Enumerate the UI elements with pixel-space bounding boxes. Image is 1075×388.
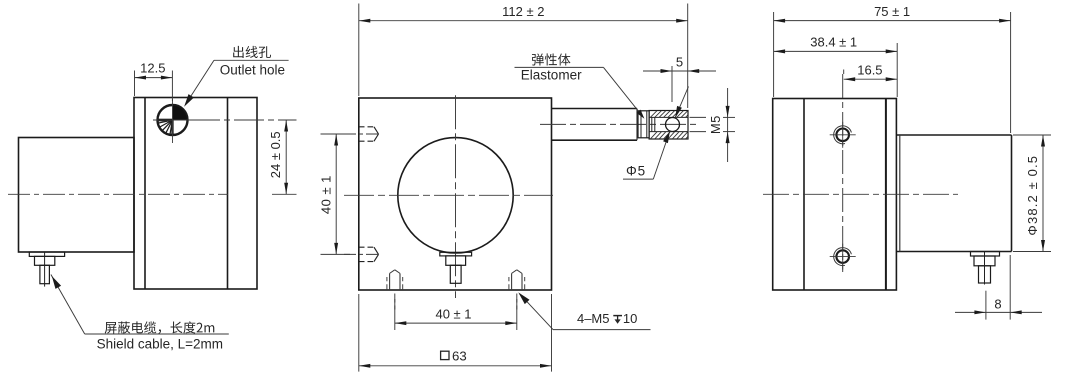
svg-text:63: 63 — [452, 348, 467, 363]
front view cable gland tier1 — [440, 252, 472, 256]
right view: plate inner edge line — [803, 99, 805, 291]
outlet hole leader line — [186, 60, 289, 104]
Φ5 text — [626, 163, 646, 178]
front view: drum circle — [398, 138, 513, 253]
svg-text:24 ± 0.5: 24 ± 0.5 — [268, 131, 283, 178]
right view cable gland tier1 — [971, 252, 1000, 257]
dimension 40±1(h) text — [435, 307, 471, 322]
right view: cylinder outline — [896, 135, 1011, 252]
outlet hole circle — [158, 105, 188, 135]
right view plate hole centerline (vertical) — [842, 74, 844, 272]
right view: mounting plate outline — [773, 99, 897, 291]
dimension M5 line — [726, 88, 730, 162]
left view cable gland tier1 — [29, 252, 64, 256]
dimension 12.5 extension lines — [135, 71, 173, 102]
front view cable gland tier2 — [446, 256, 466, 265]
shield cable leader arrowhead — [52, 276, 61, 289]
svg-text:10: 10 — [623, 311, 637, 326]
svg-text:Elastomer: Elastomer — [521, 68, 582, 83]
dimension 75±1 text — [874, 4, 910, 19]
svg-text:M5: M5 — [708, 115, 723, 134]
svg-text:4–M5: 4–M5 — [577, 311, 610, 326]
dimension □63 text — [441, 348, 467, 363]
dimension Φ38.2±0.5 line — [1041, 135, 1045, 252]
svg-text:112 ± 2: 112 ± 2 — [502, 4, 544, 19]
side tapped hole M5 top (left edge) — [344, 127, 381, 141]
dimension 24±0.5 line — [284, 120, 288, 194]
shield cable leader line — [51, 275, 229, 335]
M5 stud (threaded end) — [649, 111, 688, 140]
svg-text:8: 8 — [994, 296, 1001, 311]
dimension □63 line — [359, 364, 552, 368]
left view cable wire — [44, 252, 46, 287]
dimension □63 extension lines — [359, 294, 552, 372]
dimension 5 extension line — [671, 66, 673, 102]
label 出线孔 (CJK path) — [233, 46, 271, 58]
outlet hole leader arrowhead — [184, 94, 194, 107]
front view cable gland tube — [450, 265, 461, 283]
left view: rear face edge line — [227, 98, 229, 290]
svg-text:38.4 ± 1: 38.4 ± 1 — [810, 34, 857, 49]
label 4-M5 depth10 text — [577, 311, 637, 326]
dimension 38.4±1 text — [810, 34, 857, 49]
dimension M5 extension lines — [690, 117, 736, 131]
label Elastomer text — [521, 68, 582, 83]
svg-text:40 ± 1: 40 ± 1 — [319, 175, 334, 214]
dimension 112±2 line — [359, 19, 688, 23]
left view: sensor body (side outline) — [134, 98, 257, 290]
M5 stud thread hatching — [651, 111, 693, 139]
dimension Φ38.2±0.5 text — [1025, 155, 1040, 236]
dimension 24±0.5 text — [268, 131, 283, 178]
dimension 8 text — [994, 296, 1001, 311]
right view: plate right face line — [885, 99, 887, 291]
plate mounting hole top (M5 front view) — [830, 122, 856, 148]
svg-text:5: 5 — [676, 55, 683, 70]
front view vertical centerline — [455, 95, 457, 298]
dimension 75±1 extension lines — [774, 12, 1011, 133]
plate mounting hole bottom (M5 front view) — [830, 244, 856, 270]
right view horizontal centerline — [763, 193, 958, 195]
dimension 40±1(h) extension lines — [395, 299, 517, 330]
dimension 40±1(v) extension lines — [321, 134, 351, 254]
bottom tapped hole M5 right — [509, 270, 525, 310]
Φ5 diameter leader lines — [623, 87, 689, 180]
dimension 8 extension lines — [986, 255, 1010, 320]
left view: drum cylinder outline — [19, 138, 135, 253]
svg-text:Φ38.2 ± 0.5: Φ38.2 ± 0.5 — [1025, 155, 1040, 236]
svg-text:40 ± 1: 40 ± 1 — [435, 307, 471, 322]
left view cable gland tube — [40, 265, 50, 283]
outlet hole SW quadrant hatch fan — [158, 120, 172, 134]
outlet hole horizontal centerline — [153, 119, 191, 121]
dimension 24±0.5 extension lines — [190, 120, 297, 194]
dimension 12.5 text — [140, 60, 165, 75]
svg-text:Φ5: Φ5 — [626, 163, 646, 178]
svg-text:16.5: 16.5 — [857, 63, 882, 78]
elastomer leader arrowhead — [637, 110, 645, 119]
dimension 40±1(v) line — [334, 134, 338, 254]
label 弹性体 (CJK path) — [532, 53, 570, 65]
wire rope tube (rod) outline — [552, 109, 638, 141]
label Outlet hole text — [220, 62, 285, 77]
svg-text:12.5: 12.5 — [140, 60, 165, 75]
left view cable gland tier2 — [35, 256, 55, 265]
dimension 112±2 extension lines — [359, 4, 688, 109]
Φ5 leader arrowheads — [663, 106, 682, 143]
right view cable gland tube — [979, 266, 991, 283]
dimension 5 text — [676, 55, 683, 70]
label 屏蔽电缆，长度2m (CJK path) — [105, 321, 215, 333]
svg-text:Outlet hole: Outlet hole — [220, 62, 285, 77]
dimension 38.4±1 line — [774, 49, 898, 53]
4-M5 leader arrowhead — [518, 292, 529, 304]
left view: horizontal centerline — [8, 193, 228, 195]
left view: front flange edge line — [144, 98, 146, 290]
right view cable wire — [984, 252, 986, 285]
dimension 12.5 line — [135, 76, 173, 80]
dimension 40±1(h) line — [395, 321, 517, 325]
outlet hole vertical centerline — [172, 99, 174, 143]
dimension 16.5 extension line — [843, 70, 845, 75]
dimension 40±1(v) text — [319, 175, 334, 214]
dimension 5 line — [643, 69, 716, 73]
dimension 112±2 text — [502, 4, 544, 19]
svg-text:Shield cable, L=2mm: Shield cable, L=2mm — [97, 336, 223, 351]
dimension Φ38.2±0.5 extension lines — [1013, 135, 1051, 252]
bottom tapped hole M5 left — [387, 270, 403, 310]
dimension 16.5 text — [857, 63, 882, 78]
right view cable gland tier2 — [974, 256, 995, 266]
dimension 75±1 line — [774, 19, 1011, 23]
front view: square housing — [359, 98, 552, 290]
dimension 16.5 line — [844, 77, 898, 81]
dimension M5 text — [708, 115, 723, 134]
4-M5 leader line — [520, 294, 651, 330]
dimension 38.4±1 extension line — [896, 43, 898, 97]
dimension 8 line — [955, 310, 1042, 314]
depth symbol — [613, 316, 622, 324]
elastomer block — [638, 111, 649, 138]
outlet hole NE quadrant fill — [173, 106, 187, 120]
label Shield cable, L=2mm — [97, 336, 223, 351]
front view horizontal centerline — [344, 194, 553, 196]
side tapped hole M5 bottom (left edge) — [344, 247, 381, 261]
rod centerline — [540, 123, 699, 125]
Φ5 hole circle — [666, 118, 680, 132]
elastomer leader line — [515, 67, 644, 117]
svg-text:75 ± 1: 75 ± 1 — [874, 4, 910, 19]
